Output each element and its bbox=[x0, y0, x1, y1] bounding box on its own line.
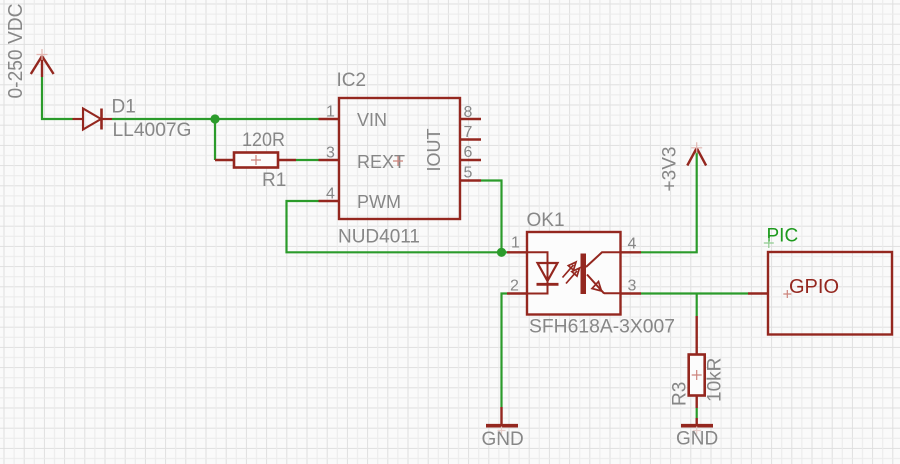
resistor R1 bbox=[215, 153, 296, 168]
IC2 pin 5 IOUT bbox=[460, 179, 481, 181]
wire from supply to diode bbox=[42, 77, 73, 119]
svg-text:R1: R1 bbox=[262, 170, 286, 191]
svg-text:1: 1 bbox=[511, 235, 520, 252]
OK1 pin 3 stub bbox=[621, 292, 642, 294]
svg-text:7: 7 bbox=[464, 124, 473, 141]
wire down to R3 bbox=[696, 294, 698, 317]
svg-text:SFH618A-3X007: SFH618A-3X007 bbox=[529, 317, 675, 338]
IC2 pin 3 REXT bbox=[319, 159, 340, 161]
svg-text:120R: 120R bbox=[242, 130, 285, 151]
ground GND (right) bbox=[696, 418, 698, 424]
wire R1 to pin3 bbox=[296, 159, 319, 161]
svg-text:1: 1 bbox=[326, 104, 335, 121]
svg-text:GND: GND bbox=[676, 429, 718, 450]
+3V3 origin cross bbox=[691, 142, 702, 153]
svg-text:10kR: 10kR bbox=[705, 358, 726, 402]
svg-text:IOUT: IOUT bbox=[424, 128, 444, 171]
wire pin5 to junction B bbox=[481, 181, 502, 253]
OK1 pin 1 stub bbox=[507, 251, 527, 253]
svg-text:8: 8 bbox=[464, 104, 473, 121]
IC2 pin 1 VIN bbox=[319, 118, 340, 120]
OK1 light arrows bbox=[563, 262, 580, 284]
wire OK1 pin4 to +3V3 bbox=[641, 150, 697, 252]
svg-text:0-250 VDC: 0-250 VDC bbox=[5, 4, 27, 99]
IC2 pin 4 PWM bbox=[319, 200, 340, 202]
svg-text:OK1: OK1 bbox=[527, 210, 565, 231]
svg-text:2: 2 bbox=[510, 278, 519, 295]
OK1 pin 2 stub bbox=[507, 292, 527, 294]
IC2 box bbox=[339, 98, 460, 219]
GPIO box bbox=[768, 252, 892, 335]
junction node B bbox=[497, 248, 506, 257]
wire stub into GPIO bbox=[748, 292, 768, 294]
svg-text:6: 6 bbox=[464, 144, 473, 161]
wire OK1 pin3 to GPIO and R3 bbox=[641, 292, 748, 294]
resistor R3 bbox=[689, 316, 705, 408]
wire R3 to GND bbox=[696, 408, 698, 418]
svg-text:4: 4 bbox=[628, 236, 637, 253]
svg-text:+3V3: +3V3 bbox=[660, 147, 681, 192]
IC2 pin 8 bbox=[460, 118, 481, 120]
svg-text:VIN: VIN bbox=[357, 110, 387, 130]
svg-text:LL4007G: LL4007G bbox=[113, 120, 192, 141]
diode D1 bbox=[73, 109, 113, 130]
junction node bbox=[210, 114, 219, 123]
svg-text:3: 3 bbox=[628, 278, 637, 295]
svg-text:R3: R3 bbox=[670, 382, 691, 406]
GPIO origin cross bbox=[783, 290, 791, 298]
svg-text:4: 4 bbox=[326, 186, 335, 203]
svg-text:5: 5 bbox=[464, 165, 473, 182]
svg-text:GPIO: GPIO bbox=[789, 276, 839, 298]
svg-text:D1: D1 bbox=[112, 97, 136, 118]
svg-text:GND: GND bbox=[482, 429, 524, 450]
svg-text:IC2: IC2 bbox=[337, 70, 367, 91]
svg-text:NUD4011: NUD4011 bbox=[338, 227, 420, 248]
supply origin cross bbox=[37, 49, 48, 60]
svg-text:PWM: PWM bbox=[357, 192, 401, 212]
wire OK1 pin2 to GND bbox=[502, 294, 508, 408]
IC2 pin 7 bbox=[460, 138, 481, 140]
OK1 phototransistor bbox=[581, 252, 621, 294]
supply symbol +0-250VDC arrow bbox=[31, 56, 54, 77]
IC2 pin 6 bbox=[460, 159, 481, 161]
wire PWM feedback bbox=[287, 201, 508, 252]
OK1 pin 4 stub bbox=[621, 251, 642, 253]
OK1 box bbox=[527, 232, 621, 315]
OK1 LED bbox=[527, 252, 559, 293]
wire junction down to R1 bbox=[214, 119, 216, 160]
IC2 origin cross bbox=[393, 156, 403, 166]
ground GND (left) bbox=[500, 407, 502, 424]
wire diode to IC2 pin1 bbox=[112, 118, 319, 120]
supply symbol +3V3 arrow bbox=[687, 148, 706, 166]
PIC origin cross bbox=[764, 238, 774, 248]
svg-text:3: 3 bbox=[326, 145, 335, 162]
